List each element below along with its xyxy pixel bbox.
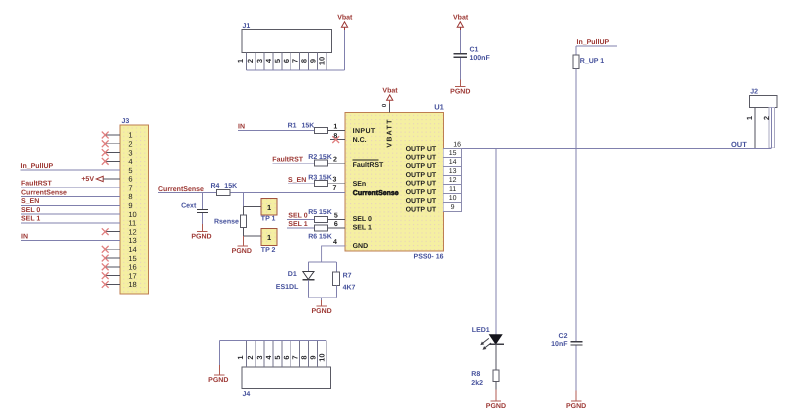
svg-text:C1: C1 (470, 46, 479, 53)
node In_PullUP at J3 pin 5 (21, 162, 121, 170)
svg-text:SEL 0: SEL 0 (288, 212, 307, 219)
svg-text:7: 7 (291, 59, 300, 63)
svg-text:Vbat: Vbat (382, 87, 398, 95)
resistor R6 (308, 225, 345, 240)
pin 6 (334, 221, 338, 228)
resistor R5 (308, 209, 345, 222)
svg-text:4: 4 (128, 157, 132, 166)
node IN at J3 pin 13 (21, 233, 120, 240)
svg-text:16: 16 (453, 141, 461, 148)
svg-text:5: 5 (273, 59, 282, 63)
power Vbat at J1 (337, 14, 353, 30)
svg-text:15K: 15K (224, 183, 237, 190)
pin names U1 OUTPUT rows (406, 146, 437, 214)
svg-text:In_PullUP: In_PullUP (577, 38, 610, 46)
capacitor Cext (181, 192, 208, 231)
svg-text:PGND: PGND (191, 233, 211, 240)
svg-text:R7: R7 (343, 273, 352, 280)
svg-text:R_UP 1: R_UP 1 (580, 58, 604, 65)
svg-text:10: 10 (317, 353, 326, 361)
svg-text:7: 7 (291, 356, 300, 360)
svg-text:6: 6 (282, 356, 291, 360)
test point TP 1 (261, 198, 277, 222)
label OUT (731, 140, 747, 149)
connector J4 (236, 341, 330, 399)
svg-text:J4: J4 (243, 391, 251, 398)
svg-text:SEn: SEn (353, 181, 367, 188)
ground PGND at J4 (208, 375, 228, 384)
svg-text:OUTP UT: OUTP UT (406, 198, 437, 205)
no-connect J3 pin 14 (102, 246, 120, 253)
svg-text:1: 1 (267, 233, 271, 242)
svg-text:J3: J3 (122, 118, 130, 125)
no-connect J3 pin 12 (102, 228, 120, 235)
svg-text:14: 14 (128, 245, 136, 254)
svg-text:R2: R2 (308, 154, 317, 161)
ground PGND at C2 (566, 401, 586, 410)
svg-text:CurrentSense: CurrentSense (21, 189, 67, 196)
connector J3 (120, 118, 149, 294)
wire CurrentSense branch to Rsense (244, 192, 262, 215)
pin 5 (334, 212, 338, 219)
svg-text:PGND: PGND (208, 377, 228, 384)
svg-text:1: 1 (745, 116, 754, 120)
svg-text:0: 0 (381, 103, 388, 107)
svg-text:S_EN: S_EN (288, 177, 306, 184)
svg-text:Rsense: Rsense (214, 219, 239, 226)
svg-text:SEL 1: SEL 1 (21, 216, 40, 223)
svg-text:9: 9 (308, 356, 317, 360)
svg-text:PGND: PGND (566, 403, 586, 410)
svg-text:12: 12 (449, 177, 457, 184)
capacitor C2 (551, 333, 583, 401)
no-connect pin 8 N.C. (330, 133, 345, 143)
node IN (238, 124, 314, 131)
svg-text:GND: GND (353, 243, 369, 250)
svg-text:15K: 15K (319, 175, 332, 182)
svg-text:PGND: PGND (486, 403, 506, 410)
svg-text:15: 15 (128, 254, 136, 263)
resistor R2 (308, 154, 345, 166)
svg-text:5: 5 (128, 166, 132, 175)
pin 4 GND wire (308, 239, 345, 272)
svg-text:FaultRST: FaultRST (353, 161, 384, 169)
svg-text:U1: U1 (434, 103, 444, 112)
svg-text:ES1DL: ES1DL (276, 284, 299, 291)
svg-text:TP 1: TP 1 (261, 215, 276, 222)
svg-text:R8: R8 (471, 371, 480, 378)
ground PGND at C1 (450, 87, 470, 96)
node SEL 0 (287, 212, 314, 219)
svg-text:J2: J2 (750, 89, 758, 96)
pin 0 VBATT wire (381, 100, 390, 112)
svg-text:1: 1 (236, 356, 245, 360)
svg-text:SEL 1: SEL 1 (288, 221, 307, 228)
svg-text:15K: 15K (319, 154, 332, 161)
svg-text:8: 8 (300, 59, 309, 63)
svg-text:4K7: 4K7 (343, 285, 356, 292)
power Vbat at C1 (453, 14, 469, 30)
resistor R4 (211, 183, 238, 195)
power +5V at J3 pin 6 (81, 176, 120, 183)
resistor R7 (333, 272, 356, 298)
svg-text:2: 2 (128, 139, 132, 148)
svg-text:11: 11 (449, 186, 456, 193)
svg-text:D1: D1 (288, 271, 297, 278)
svg-text:3: 3 (255, 356, 264, 360)
node SEL 1 (287, 221, 314, 228)
pin 16 number (453, 141, 461, 148)
node FaultRST at J3 pin 7 (21, 180, 120, 188)
svg-text:2: 2 (333, 157, 337, 164)
svg-text:IN: IN (238, 124, 245, 131)
svg-text:12: 12 (128, 227, 136, 236)
no-connect J3 pin 17 (102, 272, 120, 279)
svg-text:OUTP UT: OUTP UT (406, 146, 437, 153)
svg-text:6: 6 (128, 175, 132, 184)
svg-text:R5: R5 (308, 209, 317, 216)
svg-text:17: 17 (128, 271, 136, 280)
svg-text:2: 2 (246, 59, 255, 63)
svg-text:SEL 0: SEL 0 (21, 207, 40, 214)
svg-text:14: 14 (449, 159, 457, 166)
pin 3 (333, 177, 337, 184)
power Vbat at U1 VBATT pin (382, 87, 398, 103)
svg-text:1: 1 (333, 124, 337, 131)
node CurrentSense at J3 pin 8 (21, 189, 120, 196)
resistor R3 (308, 175, 345, 187)
svg-text:10: 10 (317, 57, 326, 65)
svg-text:18: 18 (128, 280, 136, 289)
capacitor C1 (453, 30, 490, 87)
svg-text:OUTP UT: OUTP UT (406, 207, 437, 214)
svg-text:+5V: +5V (81, 176, 94, 183)
ground PGND at Cext (191, 231, 211, 240)
op-amp U1 body (345, 103, 444, 261)
node FaultRST (272, 155, 314, 163)
node SEL 0 at J3 pin 10 (21, 207, 120, 214)
pin names U1 left side (353, 128, 399, 250)
svg-text:13: 13 (128, 236, 136, 245)
svg-text:10: 10 (128, 210, 136, 219)
svg-text:CurrentSense: CurrentSense (353, 190, 399, 197)
wire net 16 to LED1 (495, 148, 497, 334)
svg-text:OUTP UT: OUTP UT (406, 181, 437, 188)
svg-text:PGND: PGND (311, 308, 331, 315)
node S_EN (288, 177, 314, 184)
svg-text:Cext: Cext (181, 203, 197, 210)
svg-text:R4: R4 (211, 183, 220, 190)
connector J2 (745, 89, 777, 149)
node SEL 1 at J3 pin 11 (21, 216, 120, 223)
wire J1 pins to Vbat (246, 30, 344, 70)
svg-text:R1: R1 (288, 122, 297, 129)
svg-text:7: 7 (333, 185, 337, 192)
node S_EN at J3 pin 9 (21, 198, 120, 205)
connector J1 (236, 23, 331, 70)
resistor R8 (471, 370, 499, 401)
svg-text:OUTP UT: OUTP UT (406, 155, 437, 162)
pin 1 (333, 124, 337, 131)
wire net OUT (pin 16 to J2) (442, 147, 771, 149)
svg-text:FaultRST: FaultRST (272, 155, 303, 163)
svg-text:4: 4 (264, 355, 273, 360)
svg-text:15: 15 (449, 150, 457, 157)
svg-text:9: 9 (451, 204, 455, 211)
svg-text:R6: R6 (308, 234, 317, 241)
ground PGND below U1 (311, 306, 331, 315)
no-connect J3 pin 16 (102, 263, 120, 270)
svg-text:CurrentSense: CurrentSense (158, 186, 204, 193)
svg-text:9: 9 (308, 59, 317, 63)
no-connect J3 pin 2 (102, 140, 120, 147)
svg-text:OUT: OUT (731, 140, 747, 149)
svg-text:2: 2 (762, 116, 771, 120)
svg-text:C2: C2 (559, 333, 568, 340)
ground PGND at Rsense (232, 246, 252, 255)
no-connect J3 pin 3 (102, 149, 120, 156)
svg-text:15K: 15K (319, 209, 332, 216)
wire J4 pins to ground (219, 341, 326, 375)
svg-text:SEL 0: SEL 0 (353, 216, 372, 223)
svg-text:8: 8 (128, 192, 132, 201)
svg-text:J1: J1 (243, 23, 251, 30)
svg-text:3: 3 (333, 177, 337, 184)
svg-text:16: 16 (128, 263, 136, 272)
svg-text:PGND: PGND (232, 248, 252, 255)
svg-text:6: 6 (334, 221, 338, 228)
no-connect J3 pin 15 (102, 255, 120, 262)
wire Rsense to TP2 and ground (244, 227, 262, 246)
svg-text:2k2: 2k2 (471, 379, 483, 387)
no-connect J3 pin 1 (102, 132, 120, 139)
wire R_UP to C2 (575, 68, 577, 341)
svg-text:R3: R3 (308, 175, 317, 182)
svg-text:5: 5 (334, 212, 338, 219)
pin 7 (333, 185, 337, 192)
svg-text:OUTP UT: OUTP UT (406, 172, 437, 179)
resistor Rsense (214, 215, 247, 227)
resistor R_UP 1 (573, 46, 604, 68)
svg-text:10: 10 (449, 195, 457, 202)
wire D1 R7 bottom to ground (308, 298, 336, 306)
svg-text:100nF: 100nF (470, 55, 491, 62)
svg-text:6: 6 (282, 59, 291, 63)
ground PGND at R8 (486, 401, 506, 410)
svg-text:S_EN: S_EN (21, 198, 39, 205)
svg-text:INPUT: INPUT (353, 128, 376, 135)
svg-text:PSS0- 16: PSS0- 16 (414, 253, 444, 260)
svg-text:2: 2 (246, 356, 255, 360)
svg-text:7: 7 (128, 183, 132, 192)
svg-text:LED1: LED1 (472, 327, 490, 334)
resistor R1 (288, 122, 346, 133)
svg-text:11: 11 (128, 219, 136, 228)
svg-text:15K: 15K (319, 234, 332, 241)
svg-text:3: 3 (128, 148, 132, 157)
svg-text:3: 3 (255, 59, 264, 63)
svg-text:PGND: PGND (450, 89, 470, 96)
svg-text:4: 4 (264, 58, 273, 63)
svg-text:8: 8 (300, 356, 309, 360)
no-connect J3 pin 18 (102, 281, 120, 288)
svg-text:1: 1 (236, 59, 245, 63)
svg-text:9: 9 (128, 201, 132, 210)
svg-text:4: 4 (333, 239, 337, 246)
svg-text:5: 5 (273, 356, 282, 360)
svg-text:IN: IN (21, 233, 28, 240)
svg-text:10nF: 10nF (551, 341, 568, 348)
svg-text:13: 13 (449, 168, 457, 175)
node In_PullUP (576, 38, 617, 46)
svg-text:VBATT: VBATT (386, 118, 393, 147)
diode D1 (276, 271, 315, 298)
node CurrentSense wire to pin 7 (158, 186, 345, 193)
pin 2 (333, 157, 337, 164)
svg-text:Vbat: Vbat (453, 14, 469, 22)
test point TP 2 (261, 228, 277, 254)
LED LED1 (472, 327, 504, 370)
svg-text:SEL 1: SEL 1 (353, 225, 372, 232)
svg-text:Vbat: Vbat (337, 14, 353, 22)
pin label VBATT (386, 118, 393, 147)
svg-text:1: 1 (128, 131, 132, 140)
no-connect J3 pin 4 (102, 158, 120, 165)
pins 15-9 boxes (443, 148, 461, 211)
svg-text:TP 2: TP 2 (261, 247, 276, 254)
svg-text:OUTP UT: OUTP UT (406, 163, 437, 170)
svg-text:FaultRST: FaultRST (21, 180, 52, 188)
svg-text:N.C.: N.C. (353, 137, 367, 144)
svg-text:In_PullUP: In_PullUP (21, 162, 54, 170)
svg-text:1: 1 (267, 203, 271, 212)
svg-text:15K: 15K (302, 122, 315, 129)
svg-text:OUTP UT: OUTP UT (406, 189, 437, 196)
